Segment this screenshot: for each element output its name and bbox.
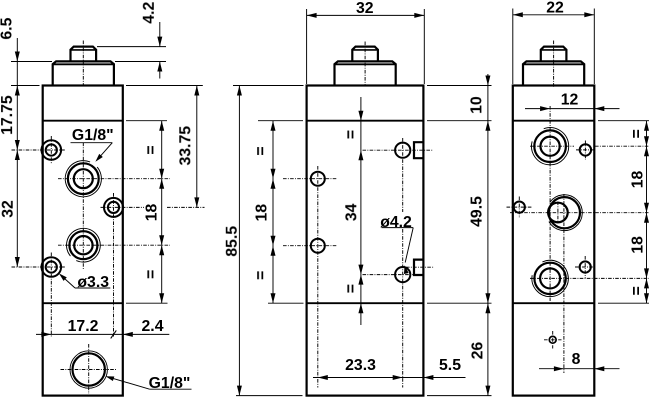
hole c2	[311, 239, 325, 253]
row G1 centerline	[530, 145, 574, 147]
svg-text:23.3: 23.3	[345, 357, 376, 374]
extension line body top left of middle view	[233, 85, 304, 87]
svg-text:17.75: 17.75	[0, 95, 16, 135]
extension line section upper left	[258, 120, 303, 122]
svg-text:33.75: 33.75	[177, 126, 194, 166]
extension line section upper right view	[598, 120, 649, 122]
svg-text:26: 26	[469, 342, 486, 360]
dimension = 34 = centre column line	[360, 97, 362, 325]
middle view lower section line	[307, 302, 424, 304]
svg-text:2.4: 2.4	[142, 318, 164, 335]
bottom port F centerlines	[61, 369, 117, 371]
middle view vertical centerline	[364, 42, 366, 87]
svg-text:=: =	[253, 146, 270, 155]
hole A upper-left	[46, 144, 57, 155]
svg-text:18: 18	[630, 236, 647, 254]
right view actuator cap	[523, 61, 584, 85]
right view body outline	[513, 86, 595, 396]
svg-text:G1/8": G1/8"	[72, 127, 114, 144]
hole c3 centerline	[363, 149, 434, 151]
hole C mid-right	[108, 202, 119, 213]
svg-text:=: =	[629, 129, 646, 138]
extension line knob top right	[97, 46, 166, 48]
port B centerline	[58, 178, 170, 180]
svg-text:=: =	[343, 130, 360, 139]
hole c1	[311, 172, 325, 186]
svg-text:32: 32	[356, 0, 374, 17]
row G2 centerline	[510, 212, 649, 214]
extension line section right lower	[126, 302, 168, 304]
svg-text:=: =	[629, 286, 646, 295]
left view body outline	[43, 86, 123, 396]
port G1 top	[541, 137, 560, 156]
right view actuator knob	[541, 47, 567, 62]
svg-text:18: 18	[144, 204, 161, 222]
port G1 column centerline	[549, 106, 551, 301]
port D lower	[74, 236, 92, 254]
hole c3 diameter 4.2	[395, 143, 410, 158]
left view actuator cap	[53, 61, 114, 85]
hole s1	[580, 144, 591, 155]
hole C centerlines	[101, 206, 145, 208]
port D centerline	[58, 244, 170, 246]
extension line section lower left	[268, 302, 304, 304]
dimension 17.2 / 2.4 line	[36, 333, 169, 335]
hole c1 centerline	[283, 178, 337, 180]
hole E lower-left	[46, 261, 57, 272]
svg-text:=: =	[343, 284, 360, 293]
svg-text:5.5: 5.5	[439, 357, 461, 374]
dimension 85.5 line	[238, 86, 240, 396]
svg-text:8: 8	[572, 351, 581, 368]
extension lines right of middle view	[427, 85, 492, 87]
extension line 22 right	[593, 9, 595, 85]
svg-text:10: 10	[468, 96, 485, 114]
bottom port F	[73, 353, 105, 385]
tab lower centerline row E	[406, 266, 434, 268]
dimension 6.5 / 17.75 / 32 line	[16, 38, 18, 267]
dimension = 18 = line left of middle view	[272, 121, 274, 304]
middle view body outline	[307, 86, 424, 396]
extension line section right upper	[126, 120, 167, 122]
dimension 4.2 line	[159, 22, 161, 47]
hole A centerlines	[12, 149, 67, 151]
svg-text:4.2: 4.2	[141, 2, 158, 24]
svg-text:34: 34	[343, 203, 360, 221]
port G2 inner hole	[548, 203, 568, 223]
hole s4 bottom	[549, 336, 556, 343]
svg-text:6.5: 6.5	[0, 17, 16, 39]
hole s4 centerlines	[544, 339, 562, 341]
hole c2 centerline	[283, 245, 337, 247]
extension line body top for 33.75	[126, 85, 203, 87]
port B G1/8 upper	[74, 169, 93, 188]
left view actuator knob	[71, 47, 97, 62]
middle view actuator knob	[352, 47, 378, 62]
dimension 32 line	[307, 14, 425, 16]
extension line section lower right view	[598, 302, 649, 304]
left view upper section line	[43, 120, 123, 122]
port G2 inner hole centerline	[557, 202, 559, 224]
side tab lower	[414, 260, 423, 275]
svg-text:18: 18	[630, 171, 647, 189]
dimension 22 line	[513, 14, 595, 16]
svg-text:17.2: 17.2	[68, 318, 99, 335]
svg-text:ø4.2: ø4.2	[380, 214, 412, 231]
svg-text:85.5: 85.5	[224, 226, 241, 257]
middle view upper section line	[307, 120, 424, 122]
right view lower section line	[513, 302, 595, 304]
hole s3 centerlines	[575, 266, 596, 268]
hole c4 centerline	[363, 274, 414, 276]
hole s3	[580, 261, 591, 272]
hole column centerline left	[317, 166, 319, 388]
extension line body top left	[11, 85, 40, 87]
dimension 33.75 line	[196, 86, 198, 208]
port G2 column centerline	[563, 194, 565, 373]
svg-text:49.5: 49.5	[469, 196, 486, 227]
extension line body bottom left of middle view	[236, 395, 303, 397]
hole s2 centerlines	[507, 206, 533, 208]
port G2 middle	[549, 197, 580, 228]
extension line 32 left	[306, 9, 308, 84]
svg-text:18: 18	[254, 204, 271, 222]
dimension 23.3 / 5.5 line	[313, 377, 466, 379]
right view vertical centerline	[553, 41, 555, 88]
side tab upper	[414, 142, 423, 158]
svg-text:=: =	[143, 145, 160, 154]
svg-text:32: 32	[0, 200, 17, 218]
hole c4 diameter 4.2	[395, 267, 410, 282]
dimension 10 49.5 26 line	[487, 74, 489, 396]
hole E centerlines	[12, 266, 67, 268]
dimension 8 line	[539, 368, 620, 370]
svg-text:=: =	[143, 270, 160, 279]
left view vertical centerline	[82, 41, 84, 87]
dimension = 18 = line right of left view	[161, 121, 163, 304]
hole column centerline right	[402, 138, 404, 212]
left view lower section line	[43, 302, 123, 304]
port G3 bottom	[540, 268, 560, 288]
svg-text:=: =	[253, 271, 270, 280]
extension line cap top left	[11, 61, 52, 63]
svg-text:22: 22	[546, 0, 564, 17]
right view upper section line	[513, 120, 595, 122]
extension line cap top right	[115, 61, 166, 63]
dimension = 18 18 = line right	[646, 121, 648, 304]
extension line 32 right	[423, 9, 425, 84]
middle view actuator cap	[335, 61, 396, 85]
row G3 centerline	[530, 277, 649, 279]
hole s1 centerlines	[576, 149, 595, 151]
extension line 22 left	[512, 9, 514, 85]
svg-text:12: 12	[561, 91, 579, 108]
dimension 12 line	[525, 108, 620, 110]
hole s2	[514, 202, 525, 213]
